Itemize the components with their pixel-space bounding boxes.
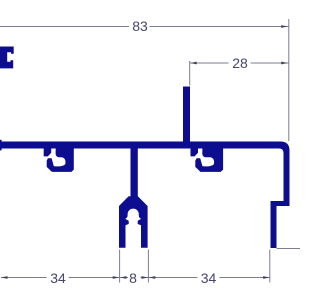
bottom extension line under left prong: [119, 250, 121, 283]
svg-text:83: 83: [132, 18, 148, 34]
hook clip 2 - tab: [191, 149, 199, 157]
dimension line 28: [190, 62, 289, 64]
vertical stem up (under dim 28): [183, 87, 190, 143]
bottom dimension line 34 right: [148, 277, 269, 279]
main horizontal bar of profile: [0, 142, 290, 249]
extension line left of dim 28: [189, 61, 191, 86]
bottom extension line under right prong: [147, 250, 149, 283]
text 28: [229, 55, 251, 71]
bottom dimension 8 with inward arrows: [120, 277, 149, 279]
arrowhead right of dim 28: [281, 62, 288, 65]
arrowhead right of dim 83: [281, 25, 288, 28]
C-clip (top-left accessory profile): [0, 47, 14, 69]
arrowhead left of dim 28: [190, 62, 197, 65]
text 8: [128, 270, 141, 286]
hook clip 1 - J body: [47, 149, 74, 172]
arrowhead pointing right at x269.8: [263, 276, 270, 279]
hook clip 2 - J body: [195, 149, 223, 172]
arrowhead pointing left at x119: [120, 276, 127, 279]
hook clip 1 - tab: [44, 149, 52, 157]
text 83: [129, 18, 150, 34]
text 34 left: [47, 270, 69, 286]
arrowhead left end bottom: [1, 276, 8, 279]
bottom dimension line 34 left: [1, 277, 120, 279]
svg-text:34: 34: [50, 270, 66, 286]
svg-text:8: 8: [129, 270, 137, 286]
extension line right of wall bottom: [277, 248, 301, 250]
text 34 right: [198, 270, 220, 286]
arrowhead pointing left at x148: [149, 276, 156, 279]
svg-text:34: 34: [201, 270, 217, 286]
svg-text:28: 28: [232, 55, 248, 71]
left edge flange stub of bar: [0, 140, 2, 151]
bottom extension line under right wall: [269, 250, 271, 283]
extension line right (for 83 and 28): [288, 19, 290, 141]
center stem and fork with screw-port: [119, 149, 148, 248]
arrowhead at x118 pointing right: [113, 276, 120, 279]
dimension line 83: [0, 26, 289, 28]
arrowhead pointing right at x147.7: [142, 276, 149, 279]
